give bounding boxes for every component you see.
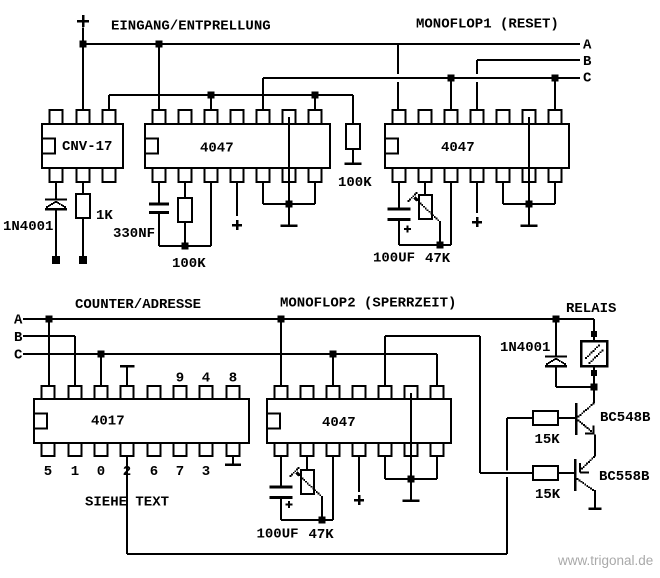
junction net C / IC4 pin3 bbox=[98, 351, 105, 358]
wire U3 pin8 to capacitor C2 bbox=[398, 182, 400, 208]
svg-text:B: B bbox=[14, 330, 23, 346]
junction ground net U3 bbox=[526, 201, 533, 208]
trimmer potentiometer P2 47K bbox=[290, 467, 323, 498]
svg-text:0: 0 bbox=[97, 464, 105, 480]
wire R4 left to vertical from 4017 bbox=[507, 417, 533, 419]
wire up to R4 base line (crosses R5 line, no connect) bbox=[506, 418, 508, 554]
wire to IC1 pin3 bbox=[210, 95, 212, 110]
ground bar U3 bbox=[521, 224, 538, 227]
wire net A to IC4 pin1 bbox=[48, 319, 50, 386]
svg-text:A: A bbox=[583, 38, 592, 54]
through-wire U3 pin13 to ground junction bbox=[528, 117, 530, 204]
junction net A / IC5 pin1 bbox=[278, 316, 285, 323]
resistor R5 15K (base Q2) bbox=[533, 466, 558, 480]
wire up to U2 pin10 bbox=[210, 182, 212, 246]
wire bottom net C1-R3-U2pin10 (y=246) bbox=[159, 245, 211, 247]
plus symbol (U3 supply) bbox=[472, 217, 482, 227]
IC U5 4047 body with pins bbox=[267, 386, 451, 456]
wire U3 pin14 to ground net bbox=[554, 182, 556, 204]
svg-text:100K: 100K bbox=[338, 175, 372, 191]
wire net B down to IC2 pin4 (crosses net C, no connect) bbox=[476, 60, 478, 110]
wire U5 pin8 to capacitor C3 bbox=[280, 457, 282, 486]
wire feedback down to R5 base line bbox=[479, 336, 481, 473]
wire U3 pin12 to ground net bbox=[502, 182, 504, 204]
wire net A to IC1 pin1 bbox=[158, 44, 160, 110]
terminal square (input +) bbox=[79, 256, 87, 264]
wire ground net under U5 bbox=[385, 478, 437, 480]
junction net A / IC4 pin1 bbox=[46, 316, 53, 323]
wire net A to diode D2 cathode bbox=[555, 319, 557, 356]
svg-text:1N4001: 1N4001 bbox=[500, 340, 550, 356]
svg-text:100UF: 100UF bbox=[373, 251, 415, 267]
wire internal net y=95 (CNY17 pin3 to R2 100K) bbox=[109, 94, 353, 96]
wire C2 bottom down bbox=[398, 221, 400, 245]
svg-text:7: 7 bbox=[176, 464, 184, 480]
wire U5 pin12 to ground net bbox=[384, 457, 386, 479]
relay K1 coil box with hatch bbox=[581, 341, 607, 366]
wire net A to IC2 pin1 (crosses net C, no connect) bbox=[397, 44, 399, 110]
wire net C bus (bottom, y=354) bbox=[23, 353, 437, 355]
ground stub U2 bbox=[288, 204, 290, 225]
plus polarity mark C3 bbox=[286, 501, 293, 508]
terminal square (input -) bbox=[52, 256, 60, 264]
wire V+ down through net-A to CNY17 pin2 bbox=[82, 28, 84, 111]
wire D1 anode down to terminal bbox=[55, 210, 57, 257]
wire R5 left to feedback vertical bbox=[480, 472, 533, 474]
wire net C bus (top, y=78) bbox=[263, 77, 580, 79]
wire net C down to IC1 pin5 bbox=[262, 78, 264, 110]
wire P2 wiper down to junction bbox=[321, 497, 323, 520]
wire bottom bus y=554 to x=507 bbox=[127, 553, 507, 555]
wire down to CNY17 pin3 bbox=[108, 95, 110, 110]
capacitor C1 330NF bbox=[149, 204, 169, 213]
wire U3 pin9 to trimmer P1 bbox=[424, 182, 426, 195]
junction y95 net / IC1 pin7 bbox=[312, 92, 319, 99]
junction net C / IC2 pin7 bbox=[552, 75, 559, 82]
wire relay top to net A corner bbox=[593, 319, 595, 341]
wire C1 bottom down bbox=[158, 214, 160, 246]
wire net B bus (top, y=60) bbox=[477, 59, 580, 61]
svg-text:EINGANG/ENTPRELLUNG: EINGANG/ENTPRELLUNG bbox=[111, 19, 271, 35]
junction net A / IC1 pin1 x=159 bbox=[156, 41, 163, 48]
wire Q1 emitter down to Q2 emitter bbox=[594, 435, 596, 457]
plus symbol (U5 supply) bbox=[354, 495, 364, 505]
wire net C to IC5 pin3 bbox=[332, 354, 334, 386]
wire ground net under U2 bbox=[263, 203, 315, 205]
wire R5 to Q2 base bbox=[558, 472, 575, 474]
wire bottom net C3-P2-U5pin10 (y=520) bbox=[281, 519, 333, 521]
junction R3 bottom bbox=[182, 243, 189, 250]
svg-text:C: C bbox=[583, 71, 592, 87]
wire up to U5 pin10 bbox=[332, 457, 334, 520]
ground bar U2 bbox=[281, 224, 298, 227]
wire P1 wiper down to junction bbox=[439, 222, 441, 245]
svg-text:4047: 4047 bbox=[441, 140, 475, 156]
wire net A corner down to relay K1 bbox=[593, 319, 595, 341]
wire net A bus (bottom, y=319) bbox=[23, 318, 594, 320]
junction net C / IC5 pin3 bbox=[330, 351, 337, 358]
svg-text:15K: 15K bbox=[535, 487, 561, 503]
wire U2 pin8 to capacitor C1 bbox=[158, 182, 160, 203]
wire ground net under U3 bbox=[503, 203, 555, 205]
svg-text:MONOFLOP1 (RESET): MONOFLOP1 (RESET) bbox=[416, 17, 559, 33]
svg-text:BC558B: BC558B bbox=[599, 469, 650, 485]
svg-text:1: 1 bbox=[71, 464, 79, 480]
resistor R3 100K bbox=[178, 198, 192, 222]
wire feedback horizontal to x=480 bbox=[385, 335, 480, 337]
stub with T-bar on IC4 pin4 (top) bbox=[120, 366, 135, 386]
IC U3 4047 body with pins bbox=[385, 110, 569, 182]
wire U5 pin9 to trimmer P2 bbox=[306, 457, 308, 470]
wire U2 pin11 to + bbox=[236, 182, 238, 216]
wire D2 anode down bbox=[555, 367, 557, 388]
wire D2 anode to relay bottom junction bbox=[556, 386, 594, 388]
power V+ symbol (top supply +) bbox=[77, 15, 89, 27]
capacitor C2 100UF (electrolytic) bbox=[388, 209, 411, 220]
svg-text:RELAIS: RELAIS bbox=[566, 301, 616, 317]
wire IC4 pin4 output 2 down long bbox=[126, 457, 128, 554]
wire up to U3 pin10 bbox=[450, 182, 452, 245]
wire net C to IC2 pin7 bbox=[554, 78, 556, 110]
svg-text:330NF: 330NF bbox=[113, 226, 155, 242]
resistor R2 100K (top right of U2) bbox=[346, 124, 360, 149]
ground stub U5 bbox=[410, 479, 412, 500]
relay K1 terminal bottom bbox=[591, 370, 597, 376]
junction P1 wiper / bottom net bbox=[437, 242, 444, 249]
wire CNY17 pin5 to resistor R1 bbox=[82, 182, 84, 194]
wire net B bus (bottom, y=336) bbox=[23, 335, 75, 337]
IC U2 4047 body with pins bbox=[145, 110, 330, 182]
svg-text:6: 6 bbox=[150, 464, 158, 480]
svg-text:1N4001: 1N4001 bbox=[3, 219, 53, 235]
wire U3 pin11 to + bbox=[476, 182, 478, 213]
through-wire U5 pin13 to ground junction bbox=[410, 393, 412, 479]
wire U2 pin14 to ground net bbox=[314, 182, 316, 204]
wire U2 pin9 to resistor R3 bbox=[184, 182, 186, 198]
svg-text:9: 9 bbox=[176, 371, 184, 387]
svg-text:47K: 47K bbox=[309, 527, 335, 543]
wire y95 net down to resistor R2 100K bbox=[352, 95, 354, 124]
svg-text:4047: 4047 bbox=[322, 415, 356, 431]
wire net C to IC4 pin3 bbox=[100, 354, 102, 386]
svg-text:www.trigonal.de: www.trigonal.de bbox=[557, 553, 653, 568]
junction ground net U5 bbox=[408, 476, 415, 483]
transistor Q1 BC548B (NPN) bbox=[576, 403, 595, 435]
trimmer potentiometer P1 47K bbox=[408, 192, 441, 223]
svg-text:100K: 100K bbox=[172, 256, 206, 272]
svg-text:MONOFLOP2 (SPERRZEIT): MONOFLOP2 (SPERRZEIT) bbox=[280, 296, 456, 312]
wire net C corner down to IC5 pin7 bbox=[436, 354, 438, 386]
ground stub U3 bbox=[528, 204, 530, 225]
svg-text:CNV-17: CNV-17 bbox=[62, 139, 112, 155]
wire R1 down to terminal bbox=[82, 218, 84, 256]
svg-text:8: 8 bbox=[229, 371, 237, 387]
svg-text:3: 3 bbox=[202, 464, 210, 480]
resistor R1 1K bbox=[76, 194, 90, 218]
svg-text:BC548B: BC548B bbox=[600, 410, 651, 426]
relay K1 terminal top bbox=[591, 331, 597, 337]
svg-text:4047: 4047 bbox=[200, 141, 234, 157]
svg-text:COUNTER/ADRESSE: COUNTER/ADRESSE bbox=[75, 297, 201, 313]
diode D2 1N4001 (freewheel) bbox=[545, 357, 567, 367]
ground bar U5 bbox=[403, 499, 420, 502]
through-wire U2 pin13 to ground junction bbox=[288, 117, 290, 204]
wire net A bus (top, y=44) bbox=[82, 43, 580, 45]
transistor Q2 BC558B (PNP) bbox=[575, 456, 595, 491]
svg-text:47K: 47K bbox=[425, 251, 451, 267]
wire U5 pin14 to ground net bbox=[436, 457, 438, 479]
svg-text:A: A bbox=[14, 313, 23, 329]
wire R2 to ground stub bbox=[352, 149, 354, 163]
plus symbol (U2 supply) bbox=[232, 220, 242, 230]
wire net A to IC5 pin1 bbox=[280, 319, 282, 386]
svg-text:100UF: 100UF bbox=[257, 527, 299, 543]
plus polarity mark C2 bbox=[404, 225, 411, 232]
diode D1 1N4001 bbox=[45, 200, 67, 210]
ground bar Q2 collector bbox=[589, 507, 602, 510]
svg-text:1K: 1K bbox=[96, 208, 113, 224]
wire net C to IC2 pin3 bbox=[450, 78, 452, 110]
junction net A / supply x=83 bbox=[80, 41, 87, 48]
wire CNY17 pin4 to diode D1 bbox=[55, 182, 57, 199]
junction net A / diode D2 bbox=[553, 316, 560, 323]
wire C3 bottom down bbox=[280, 499, 282, 520]
resistor R4 15K (base Q1) bbox=[533, 411, 558, 425]
junction relay / D2 / Q1 collector bbox=[591, 384, 598, 391]
wire net B down to IC4 pin2 bbox=[74, 336, 76, 386]
wire to IC1 pin7 bbox=[314, 95, 316, 110]
wire Q2 collector down to ground bbox=[594, 490, 596, 508]
wire relay bottom to junction bbox=[593, 366, 595, 387]
svg-text:4: 4 bbox=[202, 371, 210, 387]
wire U5 pin11 to + bbox=[358, 457, 360, 492]
stub with T-bar on IC4 pin8 (bottom) bbox=[225, 457, 241, 465]
svg-text:15K: 15K bbox=[535, 432, 561, 448]
wire R3 to junction bbox=[184, 222, 186, 246]
optocoupler U1 CNV-17 body with pins bbox=[42, 110, 123, 182]
IC U4 4017 body with pins bbox=[34, 386, 249, 456]
svg-text:B: B bbox=[583, 54, 592, 70]
capacitor C3 100UF (electrolytic) bbox=[270, 487, 293, 498]
wire bottom net C2-P1-U3pin10 (y=245) bbox=[399, 244, 451, 246]
svg-text:C: C bbox=[14, 348, 23, 364]
wire R4 to Q1 base bbox=[558, 417, 576, 419]
ground bar under R2 bbox=[345, 162, 362, 165]
junction net C / IC2 pin3 bbox=[448, 75, 455, 82]
svg-text:5: 5 bbox=[44, 464, 52, 480]
junction ground net U2 bbox=[286, 201, 293, 208]
junction P2 wiper / bottom net bbox=[319, 517, 326, 524]
wire U2 pin12 to ground net bbox=[262, 182, 264, 204]
wire junction down to Q1 collector bbox=[593, 387, 595, 403]
junction y95 net / IC1 pin3 bbox=[208, 92, 215, 99]
wire feedback IC5 pin5 up (y=336) bbox=[384, 336, 386, 386]
svg-text:4017: 4017 bbox=[91, 414, 125, 430]
